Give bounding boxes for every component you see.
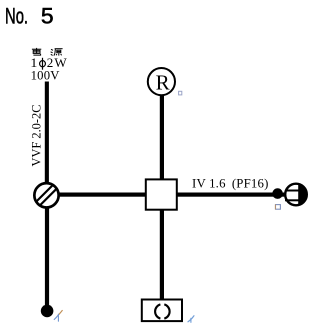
- wire: outlet box right toward outlet (IV in PF16): [177, 193, 284, 197]
- label イ (switch イ): [54, 310, 62, 321]
- wire: power feed down to joint box: [45, 82, 49, 184]
- lamp receptacle R1 (circle with R): [148, 68, 175, 95]
- svg-text:5: 5: [41, 4, 54, 28]
- outlet CN1 (receptacle outlet, half-filled circle with lines): [285, 184, 307, 206]
- label ロ (switch ロ): [275, 204, 280, 209]
- wire: outlet box down to ceiling rose: [160, 209, 164, 300]
- svg-text:IV 1.6 (PF16): IV 1.6 (PF16): [192, 176, 269, 190]
- wire: outlet box up to lamp receptacle: [160, 95, 164, 180]
- label イ (ceiling rose circuit i): [188, 316, 194, 323]
- label ロ (lamp receptacle circuit ro): [179, 91, 182, 95]
- svg-text:R: R: [156, 71, 170, 95]
- wire: joint box to outlet box (horizontal): [58, 193, 146, 197]
- label 1φ2W: [30, 56, 67, 70]
- label 電 (power source kanji DEN): [32, 48, 41, 55]
- junction box J1 (VVF joint box, hatched circle): [30, 178, 64, 211]
- switch S1 (single-pole switch イ, filled dot): [41, 305, 54, 318]
- label 源 (power source kanji GEN): [51, 49, 63, 56]
- outlet box B1 (square): [146, 179, 177, 209]
- wire: joint box down to switch イ: [45, 208, 49, 305]
- title No. 5: [5, 4, 54, 29]
- svg-text:100V: 100V: [31, 69, 60, 83]
- ceiling rose L1 (rectangular hooked ceiling, box with parentheses): [142, 300, 182, 322]
- switch S2 (single-pole switch ロ, filled dot): [272, 188, 283, 199]
- svg-text:VVF 2.0-2C: VVF 2.0-2C: [30, 105, 44, 167]
- svg-text:No.: No.: [5, 4, 28, 29]
